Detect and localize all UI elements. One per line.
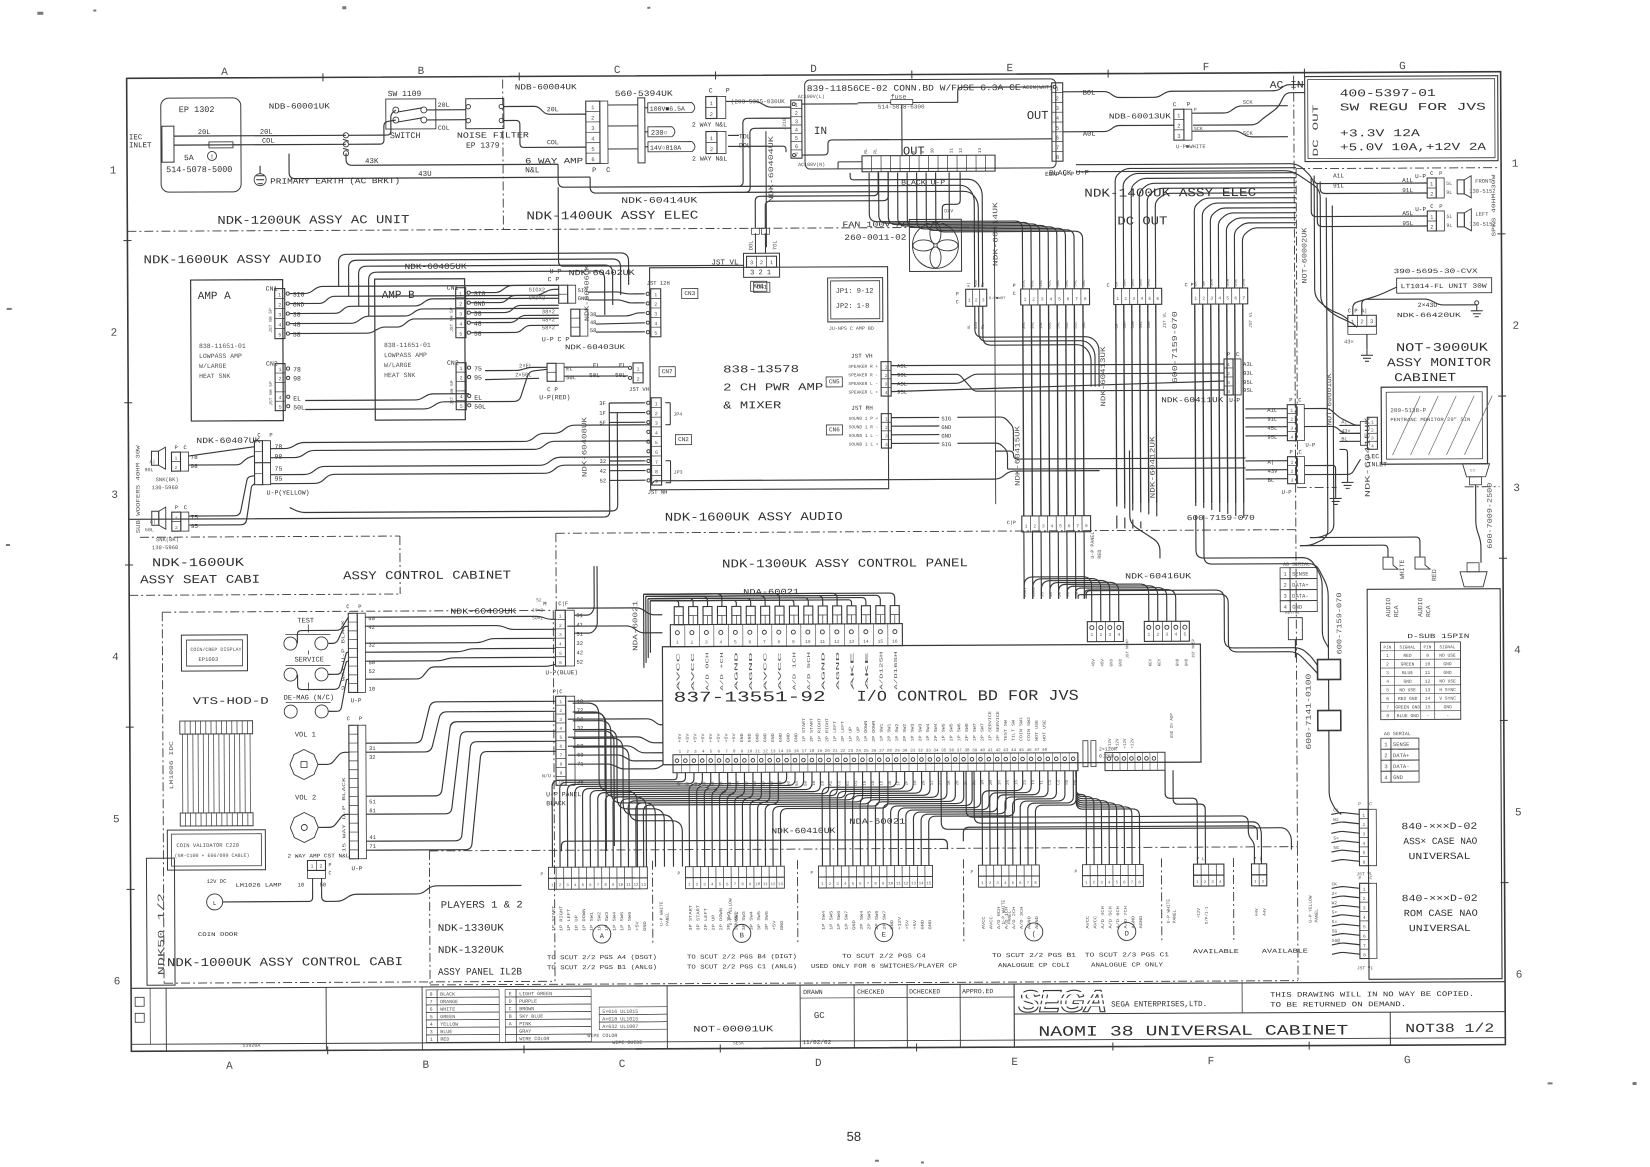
svg-text:BLUE: BLUE — [440, 1029, 452, 1035]
svg-text:C|F: C|F — [558, 600, 568, 607]
primary earth symbol — [254, 174, 266, 186]
section border players panel box — [429, 847, 1297, 851]
svg-text:CK: CK — [1332, 881, 1338, 887]
svg-text:2: 2 — [989, 882, 992, 886]
svg-text:DC OUT: DC OUT — [1117, 214, 1167, 228]
svg-text:TO SCUT 2/2 PGS B4 (DIGT): TO SCUT 2/2 PGS B4 (DIGT) — [687, 953, 797, 961]
svg-text:95L: 95L — [897, 389, 907, 396]
svg-text:U-P(YELLOW): U-P(YELLOW) — [267, 489, 310, 496]
svg-text:4: 4 — [1284, 604, 1288, 611]
svg-text:SCK: SCK — [1243, 99, 1254, 106]
svg-text:43×: 43× — [1344, 338, 1354, 345]
svg-text:A/D 4CH: A/D 4CH — [1101, 906, 1106, 929]
svg-text:12: 12 — [634, 884, 639, 888]
svg-text:1P START: 1P START — [803, 717, 807, 742]
svg-text:RL: RL — [872, 148, 878, 154]
svg-text:A/D16SH: A/D16SH — [893, 651, 899, 690]
svg-text:45L: 45L — [1267, 425, 1277, 432]
NDK-60414UK bundle lower — [975, 306, 1099, 388]
svg-text:CN6: CN6 — [829, 426, 840, 433]
svg-text:8: 8 — [1056, 154, 1059, 161]
svg-text:LOWPASS AMP: LOWPASS AMP — [384, 352, 427, 359]
wire color legend table — [426, 990, 437, 998]
JP box JP1 JP2 — [828, 278, 883, 322]
NDK50 strip box — [146, 858, 175, 985]
svg-text:600-7159-070: 600-7159-070 — [1187, 515, 1256, 523]
svg-text:2: 2 — [696, 883, 699, 887]
svg-text:4: 4 — [279, 395, 282, 401]
svg-text:29: 29 — [895, 750, 901, 754]
svg-text:AUDIO: AUDIO — [1417, 597, 1424, 617]
svg-text:C: C — [614, 65, 621, 77]
svg-text:50: 50 — [368, 615, 375, 622]
svg-text:C P: C P — [547, 386, 558, 393]
svg-text:9: 9 — [920, 150, 926, 153]
svg-text:ANALOGUE CP COLI: ANALOGUE CP COLI — [998, 962, 1070, 969]
svg-text:1P DOWN: 1P DOWN — [583, 908, 587, 931]
svg-text:1P UP: 1P UP — [850, 726, 854, 742]
svg-text:CN3: CN3 — [684, 290, 695, 297]
svg-text:600-7159-070: 600-7159-070 — [1336, 592, 1344, 654]
svg-text:F: F — [1208, 1056, 1215, 1068]
svg-text:5×: 5× — [1333, 836, 1339, 842]
svg-text:GND: GND — [1185, 658, 1189, 666]
svg-text:U-P WHITE: U-P WHITE — [659, 901, 665, 926]
svg-text:C: C — [1236, 351, 1240, 358]
svg-text:7: 7 — [1076, 523, 1079, 529]
svg-text:A/D 5CH: A/D 5CH — [806, 651, 812, 690]
svg-text:JST VH: JST VH — [629, 386, 649, 393]
svg-text:838-11651-01: 838-11651-01 — [199, 343, 246, 350]
svg-text:58: 58 — [590, 327, 597, 334]
CN5 boxed label — [826, 377, 842, 387]
svg-text:1M: 1M — [982, 780, 986, 786]
SW regulator 400-5397-01 box — [1305, 76, 1498, 162]
svg-text:42: 42 — [600, 468, 607, 475]
svg-text:1D: 1D — [880, 780, 884, 786]
svg-text:LIGHT GREEN: LIGHT GREEN — [519, 991, 552, 997]
svg-text:SCK: SCK — [1194, 126, 1203, 132]
svg-text:5×: 5× — [1332, 919, 1338, 925]
ag serial stub — [1288, 618, 1302, 640]
svg-text:5: 5 — [1363, 924, 1366, 930]
svg-text:1P DOWN: 1P DOWN — [865, 720, 869, 742]
svg-text:3: 3 — [705, 640, 708, 646]
svg-text:27: 27 — [879, 750, 885, 754]
svg-text:31: 31 — [369, 745, 376, 752]
svg-text:50: 50 — [1067, 591, 1071, 596]
svg-text:C P: C P — [548, 276, 560, 283]
svg-text:26: 26 — [871, 750, 877, 754]
svg-text:2: 2 — [1032, 296, 1035, 302]
svg-text:2 WAY N&L: 2 WAY N&L — [692, 155, 727, 162]
svg-text:AL: AL — [968, 324, 972, 329]
svg-text:42: 42 — [368, 624, 375, 631]
svg-text:COL: COL — [262, 138, 275, 146]
svg-text:TEST: TEST — [297, 617, 314, 625]
svg-text:C: C — [619, 1059, 626, 1071]
svg-text:3: 3 — [566, 884, 569, 888]
JP brackets — [665, 402, 670, 404]
svg-text:78: 78 — [274, 444, 282, 451]
svg-text:2: 2 — [1262, 881, 1265, 885]
svg-text:4: 4 — [112, 652, 119, 664]
svg-text:2: 2 — [975, 297, 978, 303]
svg-text:52: 52 — [536, 597, 542, 603]
svg-text:3: 3 — [1362, 831, 1365, 837]
svg-text:5: 5 — [1183, 632, 1186, 638]
svg-text:SIG: SIG — [941, 415, 951, 422]
svg-text:P: P — [1075, 869, 1078, 875]
svg-text:TO SCUT 2/2 PGS C1 (ANLG): TO SCUT 2/2 PGS C1 (ANLG) — [687, 963, 797, 971]
svg-text:12: 12 — [958, 148, 964, 154]
svg-text:AVCC: AVCC — [1087, 915, 1091, 928]
svg-text:V SYNC: V SYNC — [1439, 696, 1456, 702]
svg-text:100V■6.5A: 100V■6.5A — [650, 106, 685, 113]
svg-text:WIPE GUIDE: WIPE GUIDE — [612, 1040, 642, 1046]
svg-text:2M: 2M — [990, 780, 994, 786]
svg-text:N&L: N&L — [525, 166, 540, 175]
svg-text:3: 3 — [694, 751, 697, 755]
svg-text:2P SW4: 2P SW4 — [935, 723, 939, 742]
svg-text:1B: 1B — [813, 780, 817, 786]
svg-text:3: 3 — [591, 125, 594, 132]
svg-text:AGND: AGND — [1036, 916, 1040, 929]
svg-text:1: 1 — [676, 640, 679, 646]
svg-text:23: 23 — [848, 750, 854, 754]
svg-text:+5V: +5V — [773, 920, 777, 930]
svg-text:5: 5 — [734, 639, 737, 645]
svg-text:4: 4 — [1514, 645, 1521, 657]
svg-text:EUXP U-P: EUXP U-P — [1045, 171, 1074, 178]
svg-text:RCA: RCA — [1393, 605, 1400, 617]
svg-text:INLET: INLET — [129, 142, 152, 150]
svg-text:45V: 45V — [1092, 659, 1096, 667]
svg-text:GND: GND — [780, 733, 784, 743]
svg-text:14: 14 — [863, 639, 869, 645]
svg-text:COIN VALIDATOR C220: COIN VALIDATOR C220 — [176, 842, 239, 849]
wire 43K — [346, 152, 558, 165]
svg-text:840-×××D-02: 840-×××D-02 — [1402, 893, 1478, 904]
svg-text:TDL: TDL — [739, 133, 751, 140]
svg-text:SEGA ENTERPRISES,LTD.: SEGA ENTERPRISES,LTD. — [1111, 1000, 1207, 1009]
svg-text:58×2: 58×2 — [542, 324, 555, 331]
svg-text:+5V: +5V — [687, 733, 691, 743]
svg-text:48: 48 — [293, 322, 301, 329]
svg-text:12V DC: 12V DC — [207, 878, 228, 885]
svg-text:2: 2 — [1386, 662, 1389, 668]
svg-text:CN2: CN2 — [678, 436, 689, 443]
svg-text:7: 7 — [734, 883, 737, 887]
wires into lower right connector — [1246, 460, 1288, 462]
svg-text:SIG: SIG — [474, 291, 486, 298]
svg-text:EL: EL — [566, 365, 573, 372]
CN3 boxed label — [682, 289, 698, 299]
svg-text:+5V: +5V — [914, 919, 918, 929]
svg-text:1: 1 — [1090, 632, 1093, 638]
svg-text:2S: 2S — [1024, 779, 1028, 785]
svg-text:2: 2 — [1124, 296, 1127, 302]
svg-text:5G: 5G — [1332, 928, 1338, 934]
svg-text:8: 8 — [733, 750, 736, 754]
svg-text:5: 5 — [279, 405, 282, 411]
svg-text:B: B — [740, 932, 744, 940]
svg-text:7: 7 — [1386, 705, 1389, 711]
svg-text:5: 5 — [113, 814, 120, 826]
svg-text:58: 58 — [293, 332, 301, 339]
svg-text:AC100V(L): AC100V(L) — [798, 94, 825, 100]
drawing border frame — [127, 72, 1506, 1052]
CN1 boxed label pwr amp — [754, 282, 770, 292]
svg-text:9SL: 9SL — [1243, 387, 1253, 394]
svg-text:GND: GND — [764, 733, 768, 743]
svg-text:1: 1 — [1147, 632, 1150, 638]
svg-text:U-P C P: U-P C P — [542, 336, 569, 343]
svg-text:SNK(BK): SNK(BK) — [156, 476, 179, 483]
svg-text:LM1026 LAMP: LM1026 LAMP — [236, 882, 282, 889]
838-13578 pwr amp board outline — [650, 267, 889, 490]
svg-text:1P SW1: 1P SW1 — [591, 911, 595, 931]
svg-text:8: 8 — [655, 469, 658, 475]
svg-text:7: 7 — [560, 753, 563, 759]
svg-text:B: B — [509, 1014, 512, 1020]
svg-text:NDK-1600UK ASSY AUDIO: NDK-1600UK ASSY AUDIO — [665, 510, 843, 525]
svg-text:SE5A: SE5A — [733, 1040, 744, 1046]
svg-text:JST NH 5P: JST NH 5P — [268, 308, 274, 333]
svg-text:C: C — [606, 167, 610, 175]
svg-text:GNDX2: GNDX2 — [529, 294, 546, 301]
svg-text:4: 4 — [1108, 881, 1111, 885]
svg-text:2P UP: 2P UP — [713, 914, 717, 931]
svg-text:1: 1 — [591, 104, 595, 111]
svg-text:3: 3 — [1291, 478, 1294, 484]
svg-text:5: 5 — [582, 884, 585, 888]
svg-text:TO SCUT 2/2 PGS B1: TO SCUT 2/2 PGS B1 — [992, 952, 1077, 959]
svg-text:ASSY MONITOR: ASSY MONITOR — [1387, 356, 1491, 371]
svg-text:12: 12 — [763, 750, 769, 754]
svg-text:U-P: U-P — [1415, 206, 1426, 213]
wire noise filter to 6way 20L — [504, 106, 586, 114]
svg-text:○○: ○○ — [1470, 468, 1476, 474]
svg-text:2: 2 — [111, 328, 118, 340]
svg-text:AG SERIAL: AG SERIAL — [1384, 731, 1411, 737]
svg-text:AVCC: AVCC — [983, 916, 987, 929]
svg-text:2N: 2N — [1007, 780, 1011, 786]
svg-text:3: 3 — [1290, 426, 1293, 432]
svg-text:390-5695-30-CVX: 390-5695-30-CVX — [1394, 268, 1478, 275]
svg-text:50W: 50W — [1227, 278, 1231, 286]
svg-text:600-7009-2500: 600-7009-2500 — [1487, 483, 1495, 549]
svg-text:20L: 20L — [1023, 279, 1027, 287]
circled letter D — [1118, 922, 1136, 940]
panel connector right vertical drops — [574, 566, 594, 615]
svg-text:13: 13 — [771, 750, 777, 754]
svg-text:1: 1 — [968, 297, 971, 303]
svg-text:DATA+: DATA+ — [1393, 752, 1410, 759]
svg-text:THIS DRAWING WILL IN NO WAY BE: THIS DRAWING WILL IN NO WAY BE COPIED. — [1270, 991, 1474, 1000]
svg-text:13: 13 — [778, 883, 783, 887]
svg-text:52: 52 — [576, 659, 583, 666]
svg-text:12: 12 — [834, 639, 840, 645]
svg-text:C: C — [1370, 875, 1373, 881]
svg-text:50L: 50L — [1074, 279, 1078, 287]
svg-text:NDK-60403UK: NDK-60403UK — [565, 344, 626, 352]
svg-text:GND: GND — [1443, 670, 1452, 676]
svg-text:U-P PANEL: U-P PANEL — [546, 791, 581, 798]
svg-text:4: 4 — [278, 322, 281, 328]
wire from small conns to big conn — [678, 616, 680, 625]
svg-text:1: 1 — [1290, 408, 1293, 414]
svg-text:1: 1 — [981, 882, 984, 886]
wire COL to switch — [349, 120, 396, 144]
wire COL from inlet — [174, 143, 346, 146]
svg-text:P: P — [1289, 397, 1292, 404]
noise filter EP 1379 — [466, 99, 504, 129]
svg-text:JST NH 5P: JST NH 5P — [449, 307, 455, 332]
svg-text:NOT-00001UK: NOT-00001UK — [693, 1024, 774, 1034]
svg-text:13: 13 — [849, 639, 855, 645]
svg-text:50: 50 — [320, 881, 327, 888]
svg-text:1P SW2: 1P SW2 — [896, 723, 900, 742]
svg-text:6: 6 — [114, 976, 121, 988]
AMP A box — [191, 280, 284, 421]
svg-text:GND: GND — [772, 733, 776, 743]
svg-text:1P SW1: 1P SW1 — [881, 723, 885, 742]
svg-text:6: 6 — [795, 143, 798, 150]
svg-text:10: 10 — [298, 882, 305, 889]
svg-text:8: 8 — [604, 884, 607, 888]
svg-text:5: 5 — [1386, 687, 1389, 693]
title block top border — [131, 982, 1505, 989]
svg-text:53920A: 53920A — [242, 1043, 260, 1049]
wires IN connector to fuse — [802, 103, 858, 105]
IDC ribbon upper — [180, 721, 253, 734]
svg-text:2P LEFT: 2P LEFT — [705, 908, 709, 931]
svg-text:2P LEFT: 2P LEFT — [842, 720, 846, 742]
svg-text:W/LARGE: W/LARGE — [384, 362, 411, 369]
svg-text:+5V: +5V — [733, 733, 737, 743]
svg-text:32: 32 — [369, 754, 376, 761]
svg-text:E: E — [1011, 1057, 1018, 1069]
svg-text:3: 3 — [111, 490, 118, 502]
svg-text:SIGX2: SIGX2 — [529, 286, 546, 293]
svg-text:5×616 UL1015: 5×616 UL1015 — [602, 1009, 638, 1015]
svg-text:SUB WOOFERS 40HM 30W: SUB WOOFERS 40HM 30W — [134, 444, 141, 533]
svg-text:NDK-60415UK: NDK-60415UK — [1014, 425, 1022, 486]
svg-text:3: 3 — [430, 1029, 433, 1035]
svg-text:45V: 45V — [1101, 659, 1105, 667]
svg-text:U-P: U-P — [1282, 489, 1292, 496]
CN6 boxed label — [826, 425, 842, 435]
woofer wires — [188, 447, 254, 456]
svg-text:1: 1 — [1085, 882, 1088, 886]
svg-text:DATA-: DATA- — [1393, 763, 1410, 770]
svg-text:1: 1 — [637, 367, 640, 373]
svg-text:1P SW5: 1P SW5 — [621, 911, 625, 931]
svg-text:6: 6 — [1234, 295, 1237, 301]
svg-text:ASSY PANEL IL2B: ASSY PANEL IL2B — [438, 967, 522, 978]
svg-text:2P SW4: 2P SW4 — [861, 910, 865, 930]
svg-text:4: 4 — [1384, 774, 1388, 781]
svg-text:3×: 3× — [1332, 891, 1338, 897]
svg-text:WHITE: WHITE — [440, 1007, 455, 1013]
NDK-60414UK harness bundle — [698, 185, 974, 288]
JST NH 9pin connector — [651, 398, 661, 485]
svg-text:TO SCUT 2/3 PGS C1: TO SCUT 2/3 PGS C1 — [1085, 951, 1170, 958]
svg-text:WIRE COLOR: WIRE COLOR — [519, 1036, 549, 1042]
svg-text:2: 2 — [459, 302, 462, 308]
svg-text:43U: 43U — [418, 171, 432, 179]
svg-text:2: 2 — [279, 376, 282, 382]
svg-text:EP1003: EP1003 — [198, 656, 218, 663]
svg-text:C: C — [1430, 170, 1434, 177]
svg-text:P: P — [1289, 449, 1292, 456]
svg-text:CK: CK — [1116, 281, 1120, 286]
svg-text:P: P — [1358, 801, 1361, 807]
svg-text:50B: 50B — [1243, 278, 1247, 286]
svg-text:EL: EL — [593, 362, 601, 369]
svg-text:10: 10 — [755, 883, 760, 887]
control panel small connectors row — [674, 607, 683, 625]
svg-text:C: C — [509, 1006, 512, 1012]
svg-text:NDK-1400UK ASSY ELEC: NDK-1400UK ASSY ELEC — [526, 209, 698, 224]
svg-text:GND: GND — [1176, 658, 1180, 666]
svg-text:SPEAKER L +: SPEAKER L + — [848, 389, 878, 395]
svg-text:14: 14 — [1425, 696, 1431, 702]
svg-text:9: 9 — [792, 639, 795, 645]
svg-text:NDK-60414UK: NDK-60414UK — [621, 196, 698, 206]
svg-text:45: 45 — [1019, 749, 1025, 753]
big top connector NDA-60021 box — [670, 624, 902, 647]
svg-text:3: 3 — [885, 382, 888, 388]
sub woofer 1 — [151, 451, 158, 465]
svg-text:3: 3 — [750, 259, 753, 266]
bundle A vertical lines — [1023, 305, 1024, 516]
monitor connector — [1367, 417, 1377, 449]
svg-text:21: 21 — [833, 750, 839, 754]
svg-text:O/P/1-1: O/P/1-1 — [1205, 906, 1210, 924]
svg-text:1P START: 1P START — [553, 905, 557, 931]
svg-text:2G: 2G — [872, 780, 876, 786]
svg-text:1P SW2: 1P SW2 — [598, 911, 602, 931]
svg-text:93L: 93L — [1243, 370, 1253, 377]
IO right resistor pack — [1083, 741, 1088, 767]
svg-text:-: - — [1426, 714, 1429, 719]
svg-text:20L: 20L — [438, 102, 450, 109]
svg-text:-: - — [1446, 714, 1449, 719]
svg-text:5G@: 5G@ — [1332, 938, 1340, 944]
svg-text:P: P — [726, 87, 730, 94]
svg-text:4: 4 — [1219, 881, 1222, 885]
svg-text:U-P: U-P — [550, 268, 562, 275]
svg-text:7: 7 — [1242, 295, 1245, 301]
svg-text:38×2: 38×2 — [542, 308, 555, 315]
svg-text:130-5960: 130-5960 — [152, 544, 178, 551]
svg-text:SW REGU FOR JVS: SW REGU FOR JVS — [1340, 102, 1486, 115]
svg-text:G: G — [1399, 61, 1406, 73]
svg-text:2P SERVICE: 2P SERVICE — [997, 711, 1001, 742]
svg-text:4: 4 — [795, 126, 799, 133]
svg-text:BLACK: BLACK — [440, 992, 455, 998]
svg-text:1: 1 — [551, 884, 554, 888]
svg-text:USED ONLY FOR 6 SWITCHES/PLAYE: USED ONLY FOR 6 SWITCHES/PLAYER CP — [811, 962, 958, 970]
svg-text:40: 40 — [980, 749, 986, 753]
svg-text:RL: RL — [982, 282, 986, 287]
svg-text:GC: GC — [814, 1011, 825, 1021]
svg-text:SPEAKER R -: SPEAKER R - — [848, 372, 878, 378]
svg-text:NOT USE: NOT USE — [1036, 719, 1040, 741]
svg-text:DC OUT: DC OUT — [1312, 104, 1321, 156]
